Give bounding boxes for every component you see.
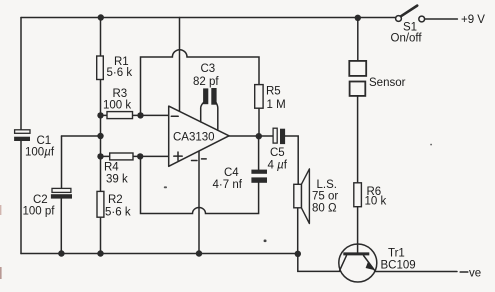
svg-text:R4: R4 xyxy=(104,162,119,174)
capacitor C5 xyxy=(268,128,288,171)
wire C2 branch vertical lower xyxy=(60,199,62,254)
node R4 left junction xyxy=(97,153,103,159)
node C2 bottom rail junction xyxy=(58,250,64,256)
wire op-amp output xyxy=(229,135,273,137)
node speaker bottom rail junction xyxy=(295,251,301,257)
scan speck right middle xyxy=(430,144,432,146)
switch S1 xyxy=(391,6,425,45)
op-amp V- pin tick left xyxy=(192,160,198,162)
svg-text:82 pf: 82 pf xyxy=(193,76,219,88)
op-amp V- pin tick right xyxy=(202,158,207,160)
svg-text:R2: R2 xyxy=(108,194,123,206)
wire C4 bottom to plus-input loop xyxy=(141,156,259,213)
node R3 left junction xyxy=(97,112,103,118)
wire main bias rail x=100.5 xyxy=(100,18,102,254)
capacitor C4 xyxy=(213,167,268,191)
svg-text:5·6 k: 5·6 k xyxy=(107,67,133,79)
wire speaker bottom to rail junction xyxy=(297,208,299,254)
wire sensor branch upper xyxy=(357,18,359,61)
capacitor C1 xyxy=(14,130,55,159)
svg-text:Tr1: Tr1 xyxy=(388,248,405,260)
resistor R6 xyxy=(354,183,387,208)
node V- pin bottom rail junction xyxy=(196,250,202,256)
wire output node down to C4 xyxy=(258,136,260,169)
wire left vertical branch (C1 branch) upper xyxy=(20,18,22,130)
svg-text:100 pf: 100 pf xyxy=(23,206,56,218)
resistor R2 xyxy=(97,191,131,218)
svg-text:C4: C4 xyxy=(224,167,239,179)
wire R4 row (non-inverting input) xyxy=(101,155,169,157)
resistor R1 xyxy=(97,56,133,80)
wire C5 right to speaker top xyxy=(285,136,298,184)
scan speck right of C4 xyxy=(264,240,267,243)
op-amp minus input sign xyxy=(171,115,178,117)
svg-text:C2: C2 xyxy=(33,194,48,206)
sensor element xyxy=(349,61,405,96)
wire C2 branch horizontal xyxy=(62,135,101,137)
svg-text:80 Ω: 80 Ω xyxy=(312,203,337,215)
node output junction xyxy=(256,133,262,139)
svg-text:L.S.: L.S. xyxy=(317,179,337,191)
wire R3 row (inverting input) xyxy=(101,114,169,116)
wire bottom -ve rail xyxy=(21,253,298,255)
svg-text:BC109: BC109 xyxy=(381,260,416,272)
op-amp U1 CA3130 xyxy=(169,106,229,166)
svg-text:4·7 nf: 4·7 nf xyxy=(213,179,243,191)
scan speck near R4 row xyxy=(164,186,167,188)
wire sensor to R6 xyxy=(357,96,359,183)
svg-text:R5: R5 xyxy=(266,86,281,98)
svg-text:4 µf: 4 µf xyxy=(268,160,288,172)
wire feedback loop from inverting node to R5 top xyxy=(141,50,260,116)
svg-text:+9 V: +9 V xyxy=(461,14,485,26)
svg-text:100 k: 100 k xyxy=(103,100,131,112)
wire left vertical branch (C1 branch) lower xyxy=(20,141,22,254)
node C2 branch rail junction xyxy=(97,133,103,139)
wire top +9V rail xyxy=(21,17,396,19)
svg-text:CA3130: CA3130 xyxy=(173,132,215,144)
wire op-amp V+ pin from top rail xyxy=(179,18,181,112)
svg-text:75 or: 75 or xyxy=(312,191,338,203)
wire C2 branch vertical upper xyxy=(61,136,63,188)
svg-text:5·6 k: 5·6 k xyxy=(105,207,131,219)
svg-text:C3: C3 xyxy=(201,63,216,75)
svg-text:100µf: 100µf xyxy=(25,147,55,159)
svg-text:On/off: On/off xyxy=(391,33,423,45)
scan smudge left edge middle xyxy=(0,205,1,215)
transistor Tr1 BC109 xyxy=(339,244,416,282)
loudspeaker L.S. xyxy=(294,169,339,224)
node R4 right junction xyxy=(137,153,143,159)
wire R6 to transistor base xyxy=(357,207,359,253)
op-amp V- pin to bottom rail xyxy=(198,151,200,253)
capacitor C3 xyxy=(193,63,219,130)
node R2 bottom rail junction xyxy=(97,250,103,256)
wire R5 bottom to output node xyxy=(258,108,260,136)
capacitor C2 xyxy=(23,188,73,217)
svg-text:Sensor: Sensor xyxy=(369,77,406,89)
wire emitter to -ve xyxy=(375,271,457,273)
svg-text:39 k: 39 k xyxy=(106,174,128,186)
scan smudge left edge bottom xyxy=(0,267,2,279)
svg-text:R3: R3 xyxy=(113,88,128,100)
node R1 top rail junction xyxy=(98,14,104,20)
svg-text:C5: C5 xyxy=(270,147,285,159)
op-amp plus input sign xyxy=(174,152,182,160)
resistor R5 xyxy=(255,85,286,111)
svg-text:C1: C1 xyxy=(37,135,52,147)
svg-text:ve: ve xyxy=(469,268,481,280)
svg-text:1 M: 1 M xyxy=(267,99,286,111)
wire bottom rail to transistor collector xyxy=(298,254,341,272)
node -ve label xyxy=(460,268,481,280)
resistor R4 xyxy=(104,153,133,186)
resistor R3 xyxy=(103,88,133,119)
wire switch to +9V xyxy=(425,18,458,20)
node sensor top rail junction xyxy=(355,15,361,21)
node R3 right junction xyxy=(137,112,143,118)
svg-text:10 k: 10 k xyxy=(365,196,387,208)
